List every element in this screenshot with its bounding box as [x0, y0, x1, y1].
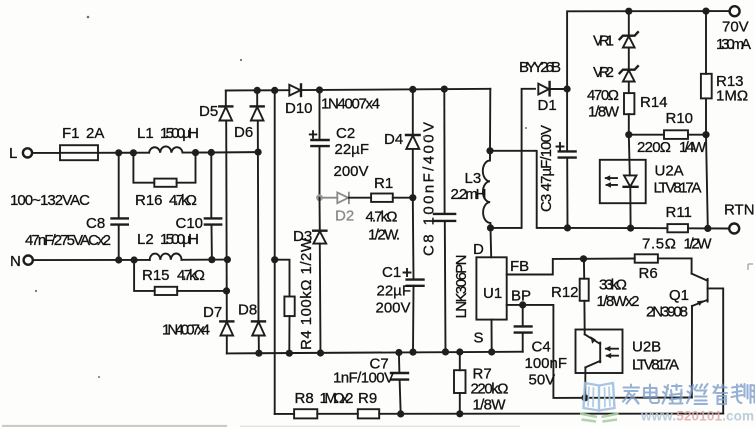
svg-text:C10: C10 — [176, 215, 204, 232]
svg-text:200V: 200V — [334, 163, 369, 180]
svg-text:70V: 70V — [722, 19, 749, 36]
svg-text:1nF/100V: 1nF/100V — [333, 370, 394, 387]
junction node R7 top on S rail — [456, 348, 463, 355]
wire R13 column to return rail — [706, 135, 708, 229]
svg-text:D8: D8 — [238, 302, 257, 319]
svg-text:1MΩ: 1MΩ — [716, 88, 748, 105]
svg-text:C4: C4 — [532, 339, 551, 356]
svg-text:2.2mH: 2.2mH — [451, 186, 487, 203]
svg-text:U2A: U2A — [655, 163, 684, 180]
diode D7 — [203, 304, 233, 353]
zener VR2 — [593, 48, 638, 82]
junction node R15/bridge column — [223, 287, 230, 294]
svg-text:VR2: VR2 — [593, 64, 614, 81]
svg-text:R11: R11 — [666, 204, 692, 221]
junction node D4 top — [409, 86, 416, 93]
junction node bridge AC2 — [224, 256, 231, 263]
junction node R4 tap — [271, 256, 278, 263]
capacitor C3 — [538, 89, 576, 228]
resistor R12 — [551, 259, 589, 335]
junction node U2A cathode on return — [627, 225, 634, 232]
svg-text:R8: R8 — [295, 390, 314, 407]
wire emitter rail to Q1 — [585, 397, 692, 399]
svg-text:R6: R6 — [639, 265, 658, 282]
diode D3 — [293, 198, 326, 353]
svg-text:22µF: 22µF — [377, 283, 412, 300]
wire sense column from DC+ rail to bottom rail — [274, 90, 276, 414]
wire R6 feed line — [584, 258, 635, 260]
svg-text:D10: D10 — [285, 100, 313, 117]
resistor R11 — [642, 204, 712, 253]
svg-text:2N3908: 2N3908 — [646, 304, 688, 321]
svg-text:1N4007x4: 1N4007x4 — [162, 322, 210, 339]
junction node BP / C4 — [519, 301, 526, 308]
wire switch node up to D1 anode — [491, 89, 536, 228]
svg-text:LTV817A: LTV817A — [632, 357, 679, 374]
inductor L2 — [137, 231, 227, 260]
resistor R16 (parallel with L1) — [133, 153, 197, 209]
wire L3 top to output return — [490, 151, 568, 228]
svg-text:F1: F1 — [62, 125, 80, 142]
junction node D3 bottom — [317, 349, 324, 356]
svg-text:D1: D1 — [538, 97, 557, 114]
resistor R1 — [349, 175, 413, 244]
resistor R4 — [275, 237, 315, 353]
inductor L1 — [137, 125, 211, 153]
junction node C10 top — [208, 149, 215, 156]
junction node U2B emitter / BP net — [581, 394, 588, 401]
junction node C8b bottom — [442, 348, 449, 355]
junction node C10 bottom — [208, 256, 215, 263]
svg-text:100nF: 100nF — [525, 355, 568, 372]
junction node D8 anode on S rail — [255, 350, 262, 357]
svg-text:33kΩ: 33kΩ — [599, 277, 627, 294]
junction node L1 right / R16 — [192, 149, 199, 156]
svg-text:50V: 50V — [529, 372, 556, 389]
IC U1 LNK306PN — [453, 241, 531, 347]
junction node C8-L — [115, 149, 122, 156]
svg-text:R9: R9 — [358, 390, 377, 407]
junction node FB/R12/R6 — [580, 255, 587, 262]
svg-text:1/4W: 1/4W — [679, 139, 707, 156]
junction node return/R11 right — [704, 225, 711, 232]
svg-text:130mA: 130mA — [716, 36, 751, 53]
wire S rail — [227, 352, 523, 354]
svg-text:R12: R12 — [551, 284, 579, 301]
junction node R10/R13 — [702, 131, 709, 138]
svg-text:22µF: 22µF — [335, 141, 370, 158]
junction node C1 bottom — [409, 349, 416, 356]
terminal RTN — [724, 202, 755, 234]
svg-text:www.520101.com: www.520101.com — [640, 409, 754, 424]
diode D8 — [238, 302, 265, 354]
svg-text:L2: L2 — [137, 231, 154, 248]
junction node D2 tap (gray) — [316, 194, 323, 201]
optocoupler U2B — [576, 330, 680, 398]
svg-text:LNK306PN: LNK306PN — [453, 255, 470, 319]
svg-text:LTV817A: LTV817A — [654, 180, 702, 197]
wire L line to bridge — [211, 151, 258, 153]
wire U1 source pin S to S rail — [491, 320, 493, 352]
svg-text:1500µH: 1500µH — [160, 125, 199, 142]
svg-text:220Ω: 220Ω — [637, 139, 671, 156]
junction node D6 top — [254, 87, 261, 94]
terminal N — [10, 253, 33, 270]
svg-text:1/8Wx2: 1/8Wx2 — [597, 293, 640, 310]
junction node L3 top — [486, 147, 493, 154]
capacitor C2 — [310, 90, 369, 198]
svg-text:1/2W.: 1/2W. — [368, 227, 400, 244]
wire N input — [33, 259, 150, 261]
svg-text:4.7kΩ: 4.7kΩ — [177, 267, 205, 284]
scan specks — [35, 16, 527, 378]
resistor R6 — [635, 254, 692, 282]
junction node R14/R10/U2A — [625, 131, 632, 138]
svg-text:C8 100nF/400V: C8 100nF/400V — [421, 122, 438, 256]
wire DC+ rail corner down to L3 — [489, 89, 491, 151]
diode D2 (faint) — [323, 192, 354, 224]
watermark text (stylized CJK strokes) — [623, 384, 755, 404]
svg-text:D6: D6 — [234, 124, 253, 141]
terminal output 70V — [716, 6, 751, 53]
scan edge smudge — [2, 425, 227, 427]
junction node C7 top — [395, 349, 402, 356]
svg-text:100~132VAC: 100~132VAC — [10, 192, 90, 209]
svg-text:D2: D2 — [335, 208, 354, 225]
svg-text:VR1: VR1 — [593, 33, 614, 50]
junction node C7 bottom — [397, 410, 404, 417]
svg-text:220kΩ: 220kΩ — [471, 381, 509, 398]
svg-text:RTN: RTN — [724, 202, 755, 219]
junction node D1 cathode — [564, 85, 571, 92]
transistor Q1 2N3908 — [646, 258, 723, 413]
wire DC+ top rail — [226, 89, 289, 91]
svg-text:L: L — [9, 145, 17, 162]
junction node R13 top — [702, 8, 709, 15]
svg-text:S: S — [474, 330, 484, 347]
svg-text:1N4007x4: 1N4007x4 — [321, 96, 380, 113]
wire bottom bias rail — [275, 413, 294, 415]
capacitor C1 — [376, 198, 424, 352]
svg-text:R14: R14 — [640, 94, 668, 111]
capacitor C4 — [515, 305, 567, 389]
junction node R7 bottom — [456, 410, 463, 417]
wire bridge column D5/D7 — [225, 121, 228, 322]
svg-text:R16: R16 — [135, 192, 163, 209]
diode D5 — [199, 91, 232, 121]
junction node C2 top — [316, 86, 323, 93]
diode D6 — [234, 90, 264, 141]
capacitor C7 — [333, 353, 408, 414]
svg-text:1MΩx2: 1MΩx2 — [320, 390, 354, 407]
wire output plus riser — [567, 11, 729, 89]
resistor R8 — [294, 390, 317, 418]
svg-text:R15: R15 — [142, 267, 170, 284]
svg-text:2A: 2A — [86, 125, 104, 142]
svg-text:C3 47µF/100V: C3 47µF/100V — [538, 125, 555, 212]
svg-text:R1: R1 — [374, 175, 393, 192]
junction node bridge AC1 — [255, 149, 262, 156]
svg-text:R10: R10 — [666, 110, 694, 127]
capacitor C8 100nF/400V — [421, 89, 456, 352]
svg-text:1/8W: 1/8W — [588, 104, 620, 121]
wire FB to R12 node — [507, 259, 584, 275]
terminal L — [9, 145, 32, 162]
svg-text:U2B: U2B — [632, 339, 661, 356]
diode D4 — [384, 89, 420, 197]
svg-text:4.7kΩ: 4.7kΩ — [366, 209, 398, 226]
junction node sense column top — [271, 87, 278, 94]
svg-text:R4 100kΩ 1/2W: R4 100kΩ 1/2W — [298, 237, 315, 350]
svg-text:BYY26B: BYY26B — [519, 59, 561, 76]
wire BP pin — [507, 305, 585, 398]
svg-text:U1: U1 — [483, 285, 502, 302]
svg-text:1500µH: 1500µH — [160, 231, 199, 248]
fuse F1 — [60, 125, 104, 160]
capacitor C8 — [25, 153, 128, 260]
resistor R7 — [454, 352, 509, 414]
junction node C8 bottom — [115, 256, 122, 263]
svg-text:D5: D5 — [199, 103, 218, 120]
capacitor C10 — [176, 153, 222, 260]
junction node C3 bottom — [564, 224, 571, 231]
svg-text:7.5Ω: 7.5Ω — [642, 236, 676, 253]
junction node S pin on S rail — [488, 348, 495, 355]
svg-text:L1: L1 — [137, 125, 154, 142]
diode D1 BYY26B — [519, 59, 567, 114]
svg-text:L3: L3 — [465, 170, 482, 187]
svg-text:FB: FB — [510, 258, 529, 275]
optocoupler U2A — [600, 135, 702, 228]
resistor R14 — [587, 82, 668, 135]
svg-text:1/8W: 1/8W — [473, 397, 507, 414]
svg-text:C2: C2 — [336, 125, 355, 142]
resistor R10 — [629, 110, 707, 156]
svg-text:D: D — [473, 241, 484, 258]
inductor L3 — [451, 151, 491, 228]
wire bridge column D6/D8 — [257, 121, 260, 322]
junction node L1 left — [130, 149, 137, 156]
resistor R15 (parallel with L2) — [134, 260, 226, 295]
wire L input to fuse — [32, 152, 60, 154]
svg-text:D4: D4 — [384, 131, 403, 148]
diode D10 — [285, 84, 313, 117]
svg-text:C8: C8 — [86, 215, 105, 232]
zener VR1 — [593, 11, 638, 49]
svg-text:1/2W: 1/2W — [684, 236, 713, 253]
svg-text:4.7kΩ: 4.7kΩ — [169, 192, 197, 209]
svg-text:N: N — [10, 253, 21, 270]
junction node VR1 top — [625, 8, 632, 15]
svg-text:47nF/275VACx2: 47nF/275VACx2 — [25, 232, 111, 249]
wire L3 to U1 drain pin D — [490, 228, 493, 257]
svg-text:470Ω: 470Ω — [587, 87, 619, 104]
junction node R1/D4/C1 — [409, 194, 416, 201]
svg-text:C1: C1 — [382, 264, 401, 281]
svg-text:Q1: Q1 — [669, 287, 689, 304]
svg-text:200V: 200V — [376, 300, 411, 317]
junction node R4 bottom — [286, 350, 293, 357]
wire fuse to L1 — [98, 152, 149, 154]
junction node C8b top — [441, 86, 448, 93]
resistor R9 — [358, 390, 379, 418]
resistor R13 — [701, 11, 748, 135]
wire output return rail — [568, 227, 668, 229]
watermark book icon — [580, 383, 619, 422]
svg-text:D7: D7 — [203, 304, 222, 321]
junction node L3 bottom / switch node — [487, 224, 494, 231]
junction node L2 left — [131, 256, 138, 263]
